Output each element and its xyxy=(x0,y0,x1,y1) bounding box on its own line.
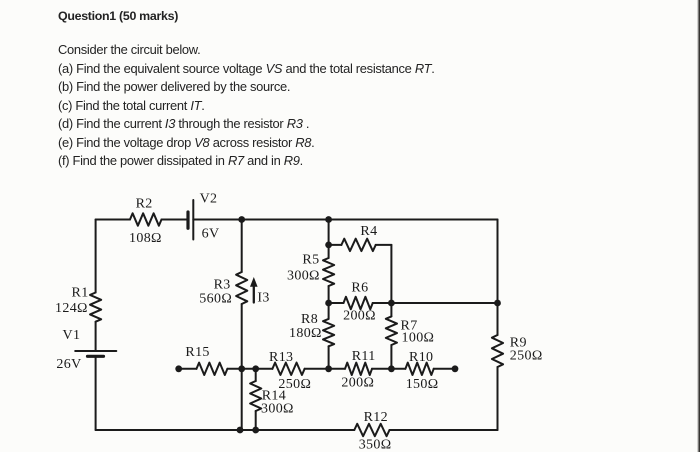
resistor R1 xyxy=(90,293,101,322)
svg-text:180Ω: 180Ω xyxy=(289,326,322,341)
wire R9 to bottom-right corner xyxy=(497,367,499,430)
node junction R4 / R6 / R7 xyxy=(388,300,395,307)
label R2 xyxy=(136,197,153,212)
resistor R4 xyxy=(329,239,392,251)
label 26V xyxy=(56,357,81,372)
battery V2 xyxy=(188,200,193,240)
svg-text:200Ω: 200Ω xyxy=(341,376,374,391)
svg-text:R3: R3 xyxy=(214,278,231,293)
svg-text:R1: R1 xyxy=(72,286,89,301)
svg-text:300Ω: 300Ω xyxy=(287,269,320,284)
node junction bottom wire / R14 branch xyxy=(252,427,259,434)
wire V2 to top-right corner xyxy=(193,219,497,221)
svg-text:R10: R10 xyxy=(409,350,433,365)
wire V1 to bottom-left corner xyxy=(95,356,97,430)
label 300&#937; of R14 xyxy=(261,402,294,417)
node junction bottom wire / R3 branch xyxy=(237,427,244,434)
resistor R12 xyxy=(354,424,389,436)
svg-text:I3: I3 xyxy=(257,291,269,306)
label 200&#937; of R11 xyxy=(341,376,374,391)
resistor R3 xyxy=(236,272,247,304)
label I3 xyxy=(257,291,269,306)
node junction R7 / R11 / R10 xyxy=(388,365,395,372)
wire R12 to bottom-right corner xyxy=(390,429,498,431)
label R4 xyxy=(360,224,377,239)
wire R6 node to right vertical xyxy=(391,302,497,304)
wire R4 right side down xyxy=(390,245,392,303)
resistor R15 xyxy=(179,363,242,375)
label R8 xyxy=(301,312,318,327)
page right scan edge xyxy=(697,0,700,452)
label R10 xyxy=(409,350,433,365)
node junction top wire / R4-R5 branch xyxy=(325,216,332,223)
wire R1 to V1 xyxy=(95,322,97,351)
label 250&#937; of R9 xyxy=(510,349,543,364)
node junction R5 / R6 / R8 xyxy=(325,300,332,307)
label R5 xyxy=(302,253,319,268)
svg-text:R6: R6 xyxy=(351,281,368,296)
label R7 xyxy=(401,319,418,334)
node junction R4 / R5 xyxy=(325,242,332,249)
svg-text:300Ω: 300Ω xyxy=(261,402,294,417)
svg-text:R5: R5 xyxy=(302,253,319,268)
label V1 xyxy=(63,328,81,343)
svg-text:124Ω: 124Ω xyxy=(55,301,88,316)
svg-text:560Ω: 560Ω xyxy=(199,291,232,306)
resistor R9 xyxy=(492,335,503,367)
svg-text:26V: 26V xyxy=(56,357,81,372)
wire R3 node to R13 xyxy=(242,368,273,370)
wire R2 to V2 xyxy=(162,219,189,221)
wire R3 branch upper xyxy=(241,220,243,273)
wire bottom-left to R12 xyxy=(96,429,355,431)
label R3 xyxy=(214,278,231,293)
battery V1 xyxy=(75,351,116,356)
svg-text:R15: R15 xyxy=(185,345,209,360)
resistor R13 xyxy=(272,363,328,375)
svg-text:6V: 6V xyxy=(202,227,220,242)
wire R3 branch lower xyxy=(241,304,243,430)
resistor R14 xyxy=(250,369,261,430)
label 350&#937; xyxy=(359,438,392,452)
node junction right vertical / R6-R7 row xyxy=(494,300,501,307)
label 150&#937; xyxy=(406,377,439,392)
svg-text:350Ω: 350Ω xyxy=(359,438,392,452)
resistor R2 xyxy=(130,213,161,225)
node terminal of R10 xyxy=(452,365,459,372)
svg-text:R11: R11 xyxy=(352,349,376,364)
node junction R14 / middle row xyxy=(252,365,259,372)
svg-text:R4: R4 xyxy=(360,224,377,239)
svg-text:250Ω: 250Ω xyxy=(510,349,543,364)
wire stub top to R4-R5 node xyxy=(328,220,330,245)
label 6V xyxy=(202,227,220,242)
svg-text:200Ω: 200Ω xyxy=(343,309,376,324)
label 100&#937; xyxy=(402,331,435,346)
label R14 xyxy=(262,389,286,404)
node junction R8 / R13 / R11 xyxy=(325,365,332,372)
node junction R3 branch / middle row xyxy=(238,365,245,372)
label R15 xyxy=(185,345,209,360)
svg-text:108Ω: 108Ω xyxy=(129,231,162,246)
resistor R11 xyxy=(329,363,392,375)
label 124&#937; xyxy=(55,301,88,316)
label R1 xyxy=(72,286,89,301)
svg-text:100Ω: 100Ω xyxy=(402,331,435,346)
label 300&#937; of R5 xyxy=(287,269,320,284)
wire top-left corner to R2 xyxy=(96,219,130,221)
resistor R5 xyxy=(323,245,334,303)
label R12 xyxy=(364,410,388,425)
svg-text:R8: R8 xyxy=(301,312,318,327)
label 250&#937; xyxy=(278,377,311,392)
label 108&#937; xyxy=(129,231,162,246)
wire right vertical upper xyxy=(497,220,499,336)
resistor R8 xyxy=(323,303,334,369)
resistor R10 xyxy=(391,363,455,375)
svg-text:V1: V1 xyxy=(63,328,81,343)
question text block xyxy=(58,9,178,23)
svg-text:V2: V2 xyxy=(200,192,218,207)
label R13 xyxy=(269,350,293,365)
svg-text:R2: R2 xyxy=(136,197,153,212)
label R9 xyxy=(510,336,527,351)
wire left vertical upper xyxy=(95,220,97,293)
node terminal of R15 xyxy=(175,365,182,372)
label 560&#937; xyxy=(199,291,232,306)
label V2 xyxy=(200,192,218,207)
label R6 xyxy=(351,281,368,296)
resistor R7 xyxy=(386,303,397,369)
current arrow I3 xyxy=(250,277,258,303)
label R11 xyxy=(352,349,376,364)
svg-text:150Ω: 150Ω xyxy=(406,377,439,392)
svg-text:R12: R12 xyxy=(364,410,388,425)
label 200&#937; of R6 xyxy=(343,309,376,324)
label 180&#937; xyxy=(289,326,322,341)
resistor R6 xyxy=(329,297,392,309)
node junction top wire / R3 branch xyxy=(238,216,245,223)
svg-text:R13: R13 xyxy=(269,350,293,365)
